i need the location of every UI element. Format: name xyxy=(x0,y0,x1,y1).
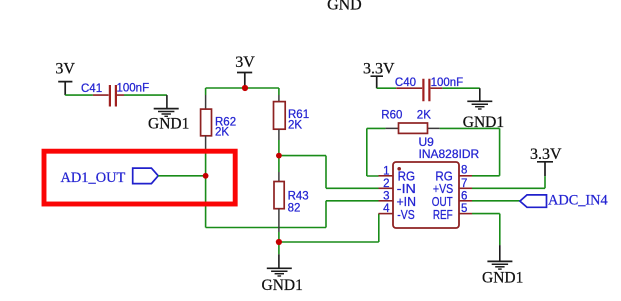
svg-text:-VS: -VS xyxy=(397,208,415,222)
svg-text:5: 5 xyxy=(461,203,467,215)
pin 8 xyxy=(459,175,472,177)
port ADC_IN4 xyxy=(520,193,608,209)
svg-text:-IN: -IN xyxy=(397,182,416,196)
wire R43 bottom lead xyxy=(278,209,280,232)
wire R61 column top xyxy=(278,88,280,95)
wire RG loop right xyxy=(440,128,500,175)
ground GND1 (center bottom) xyxy=(262,242,303,294)
resistor R61 xyxy=(274,102,310,132)
power 3.3V (top right) xyxy=(371,76,384,88)
pin 2 xyxy=(379,187,394,189)
pin 3 xyxy=(379,200,394,202)
resistor R60 xyxy=(381,109,439,133)
ground GND1 (left) xyxy=(148,95,189,133)
svg-text:1: 1 xyxy=(383,165,389,177)
pin 1 xyxy=(379,175,394,177)
wire -VS path xyxy=(279,214,379,242)
wire R43 top lead xyxy=(278,156,280,172)
wire AD1_OUT xyxy=(158,175,205,177)
svg-text:3.3V: 3.3V xyxy=(530,146,562,163)
pin 4 xyxy=(379,213,394,215)
wire R61 bottom xyxy=(278,129,280,140)
svg-text:ADC_IN4: ADC_IN4 xyxy=(548,193,608,209)
svg-text:+VS: +VS xyxy=(433,182,453,196)
pin 6 xyxy=(459,200,472,202)
pin 5 xyxy=(459,213,472,215)
svg-text:AD1_OUT: AD1_OUT xyxy=(61,170,126,186)
svg-text:INA828IDR: INA828IDR xyxy=(419,147,480,161)
svg-text:2K: 2K xyxy=(288,119,302,131)
ground GND1 (top right) xyxy=(463,88,504,131)
resistor R43 xyxy=(274,182,309,215)
wire OUT xyxy=(472,200,520,202)
junction AD1_OUT node xyxy=(203,173,209,179)
svg-text:2K: 2K xyxy=(215,126,229,138)
wire 3V rail xyxy=(206,87,279,89)
op-amp U9 xyxy=(393,135,480,228)
resistor R62 xyxy=(201,109,237,138)
svg-text:4: 4 xyxy=(383,203,390,215)
capacitor C40 xyxy=(395,77,463,101)
wire RG loop left xyxy=(367,128,386,176)
svg-text:R43: R43 xyxy=(288,191,309,203)
ground GND1 (bottom right) xyxy=(482,245,523,287)
svg-text:GND1: GND1 xyxy=(262,277,303,294)
svg-text:REF: REF xyxy=(433,208,453,222)
junction R43 bottom node xyxy=(276,239,282,245)
svg-text:100nF: 100nF xyxy=(117,83,150,95)
wire C41 right xyxy=(124,94,167,96)
svg-text:8: 8 xyxy=(461,165,467,177)
svg-text:3V: 3V xyxy=(235,54,255,71)
power 3V (left) xyxy=(58,82,72,96)
wire C41 left xyxy=(65,94,93,96)
svg-text:GND: GND xyxy=(327,0,362,13)
wire R62 column top xyxy=(205,88,207,95)
junction 3V rail xyxy=(242,85,248,91)
svg-text:C41: C41 xyxy=(81,83,102,95)
svg-text:+IN: +IN xyxy=(397,195,417,209)
port AD1_OUT xyxy=(61,168,159,186)
wire R62 bottom to +IN path xyxy=(205,136,207,149)
wire +VS xyxy=(472,176,545,188)
wire -IN path xyxy=(279,156,379,189)
svg-text:GND1: GND1 xyxy=(482,270,523,287)
capacitor C41 xyxy=(81,83,149,107)
highlight rectangle xyxy=(44,151,235,204)
junction R61/R43 node xyxy=(276,153,282,159)
svg-text:GND1: GND1 xyxy=(148,116,189,133)
power 3.3V (right) xyxy=(537,162,553,176)
svg-text:2K: 2K xyxy=(417,109,431,121)
wire C40 right xyxy=(442,87,479,89)
svg-text:2: 2 xyxy=(383,178,389,190)
svg-text:R60: R60 xyxy=(381,109,402,121)
svg-text:3.3V: 3.3V xyxy=(363,61,395,78)
svg-text:7: 7 xyxy=(461,178,467,190)
svg-text:C40: C40 xyxy=(395,77,416,89)
svg-text:82: 82 xyxy=(288,202,301,214)
svg-text:3V: 3V xyxy=(55,61,75,78)
svg-text:6: 6 xyxy=(461,190,467,202)
wire C40 left xyxy=(377,87,397,89)
svg-text:3: 3 xyxy=(383,190,389,202)
svg-text:OUT: OUT xyxy=(432,195,453,209)
power 3V (center) xyxy=(237,73,252,89)
wire REF xyxy=(472,214,500,246)
pin 7 xyxy=(459,187,472,189)
